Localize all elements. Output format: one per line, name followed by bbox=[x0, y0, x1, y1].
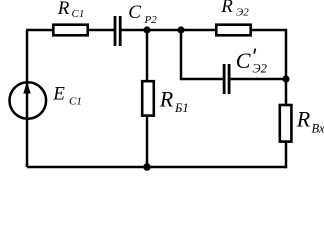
label R_C1 bbox=[57, 0, 85, 20]
svg-text:Вх: Вх bbox=[312, 122, 324, 136]
resistor R_Э2 bbox=[216, 25, 250, 36]
capacitor C'_Э2 bbox=[224, 64, 229, 94]
wire left vertical (E_C1 branch) bbox=[26, 30, 29, 167]
label C'_Э2 bbox=[236, 48, 267, 75]
wire from R_Э2 to right corner and down bbox=[251, 30, 286, 80]
svg-text:R: R bbox=[296, 107, 311, 132]
svg-text:P2: P2 bbox=[144, 14, 158, 26]
node C junction dot (right, C'_Э2 / R_Вх) bbox=[282, 75, 289, 82]
wire from node B down to C'_Э2 branch corner bbox=[181, 30, 224, 79]
wire from node B to R_Э2 bbox=[181, 29, 216, 32]
svg-text:C: C bbox=[236, 48, 251, 73]
wire between R_C1 and C_P2 bbox=[88, 29, 114, 32]
label R_Э2 bbox=[220, 0, 249, 18]
wire middle vertical from node A to R_Б1 bbox=[146, 30, 149, 81]
svg-text:Б1: Б1 bbox=[174, 101, 189, 115]
node A junction dot bbox=[143, 26, 150, 33]
wire top segment from left corner to R_C1 bbox=[26, 29, 53, 32]
svg-text:C: C bbox=[128, 2, 141, 23]
resistor R_C1 bbox=[53, 25, 87, 36]
node B junction dot bbox=[177, 26, 184, 33]
svg-text:C1: C1 bbox=[69, 95, 82, 107]
label E_C1 bbox=[52, 84, 82, 108]
label R_Вх bbox=[296, 107, 324, 136]
svg-text:Э2: Э2 bbox=[252, 61, 266, 75]
wire bottom horizontal bbox=[27, 166, 286, 169]
resistor R_Б1 bbox=[142, 81, 154, 115]
source E_C1 bbox=[10, 82, 47, 119]
wire from R_Вх to bottom right corner bbox=[285, 142, 286, 167]
wire right vertical from junction to R_Вх bbox=[285, 79, 288, 105]
svg-text:Э2: Э2 bbox=[236, 6, 249, 18]
capacitor C_P2 bbox=[115, 16, 120, 46]
node D junction dot (bottom, R_Б1 / ground rail) bbox=[143, 163, 151, 171]
svg-text:C1: C1 bbox=[72, 8, 85, 20]
wire from C'_Э2 to right junction bbox=[229, 78, 286, 81]
svg-text:R: R bbox=[220, 0, 233, 17]
wire from C_P2 to node B junction bbox=[121, 29, 181, 32]
svg-text:E: E bbox=[52, 84, 65, 105]
svg-text:R: R bbox=[159, 86, 174, 111]
resistor R_Вх bbox=[280, 105, 292, 142]
wire from R_Б1 down to bottom node bbox=[146, 116, 149, 167]
label R_Б1 bbox=[159, 86, 189, 115]
svg-text:R: R bbox=[57, 0, 70, 19]
label C_P2 bbox=[128, 2, 157, 26]
